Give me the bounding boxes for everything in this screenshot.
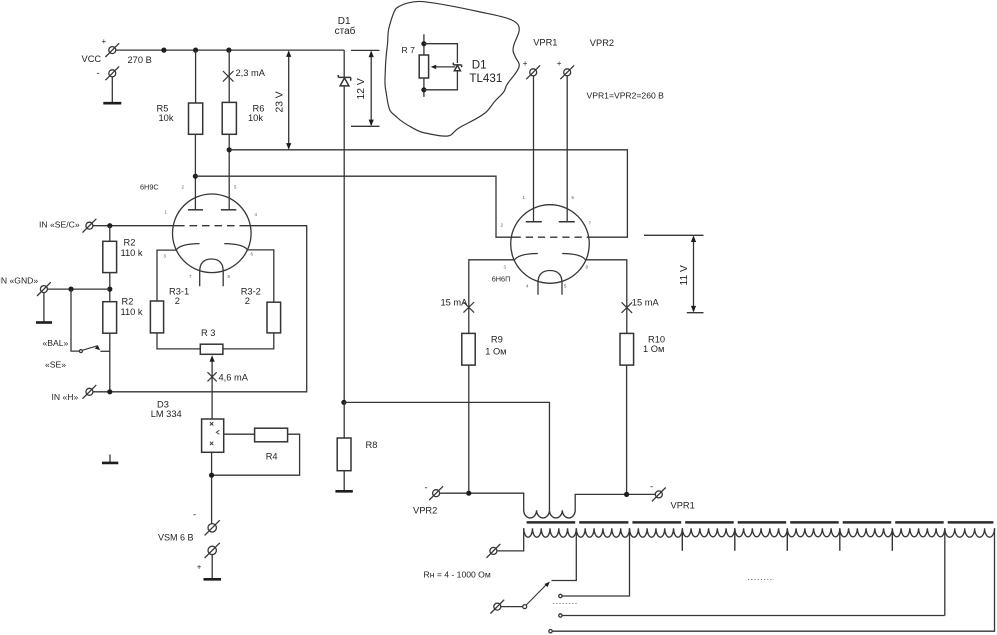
svg-text:VSM 6 В: VSM 6 В: [158, 533, 194, 543]
svg-text:R 3: R 3: [201, 328, 215, 338]
svg-text:4,6 mA: 4,6 mA: [219, 373, 249, 383]
svg-text:10k: 10k: [248, 113, 263, 123]
svg-text:IN «SE/C»: IN «SE/C»: [39, 220, 80, 230]
wire 6H9C left cathode lead: [157, 250, 176, 301]
svg-text:VPR1: VPR1: [533, 38, 557, 48]
svg-text:110 k: 110 k: [121, 307, 143, 317]
wire LM334 bottom lead: [211, 452, 213, 523]
svg-text:R2: R2: [122, 297, 134, 307]
6H9C left cathode: [176, 244, 199, 250]
node junction R7 bottom: [421, 87, 426, 92]
svg-text:-: -: [425, 483, 428, 494]
node junction zener line - B+ wire: [341, 400, 346, 405]
resistor R3-2: [267, 302, 281, 333]
wire VPR2 to 6H6P right plate: [566, 76, 568, 222]
tube 6H6P envelope: [511, 205, 590, 284]
resistor R5: [189, 103, 203, 134]
wire stub above R7: [423, 34, 425, 55]
wire IN GND to ground: [43, 293, 45, 323]
wire R6 to plate of 6H9C: [228, 134, 230, 210]
wire VPR2 to transformer primary left: [440, 493, 524, 510]
terminal IN GND: [37, 282, 51, 296]
dimension tick bottom 11V: [687, 312, 704, 314]
svg-text:D3: D3: [157, 400, 169, 410]
terminal secondary output bottom (switch): [490, 600, 504, 614]
svg-text:270 В: 270 В: [128, 55, 152, 65]
svg-text:110 k: 110 k: [121, 248, 143, 258]
LM334 internal marks: [210, 422, 213, 445]
wire VPR1 to 6H6P left plate: [533, 76, 535, 222]
ground for VCC: [103, 102, 121, 105]
svg-text:2: 2: [245, 296, 250, 306]
wire bracket R7 to TL431: [424, 44, 458, 90]
svg-text:IN «GND»: IN «GND»: [0, 276, 38, 286]
switch pivot contact: [523, 605, 527, 609]
svg-text:+: +: [523, 59, 528, 68]
switch BAL/SE moving contact circle: [79, 350, 82, 353]
wire top supply rail: [116, 49, 344, 51]
node junction rail-R6: [226, 48, 231, 53]
wire TL431 ref to R7 wiper with arrow: [434, 66, 456, 68]
wire 6H6P right cathode to R10: [585, 260, 626, 334]
svg-text:-: -: [97, 68, 100, 79]
node junction R7 top: [421, 41, 426, 46]
wire VPR1 to transformer primary right: [575, 494, 655, 510]
wire rail corner down to zener D1: [343, 50, 345, 402]
terminal VCC - (connector): [105, 66, 119, 80]
resistor R3-1: [150, 301, 163, 333]
6H9C heater: [200, 259, 224, 286]
current probe X 4.6mA: [208, 372, 217, 381]
wire R9 to VPR2 line: [468, 365, 470, 493]
wire contact3 to secondary right end: [552, 528, 994, 631]
svg-text:+: +: [557, 59, 562, 68]
terminal secondary output top: [487, 544, 501, 558]
svg-text:VCC: VCC: [82, 54, 102, 64]
terminal VPR2 +: [560, 65, 574, 79]
6H6P right cathode: [562, 254, 585, 260]
wire 6H9C right cathode lead: [248, 250, 274, 302]
node junction R10-VPR1 wire: [624, 492, 629, 497]
svg-text:10k: 10k: [159, 113, 174, 123]
switch BAL/SE lever: [83, 346, 98, 351]
wire BAL contact drop: [71, 289, 79, 351]
wire R4 around to LM334 bottom: [212, 434, 300, 475]
svg-text:R 7: R 7: [402, 45, 416, 55]
svg-text:23 V: 23 V: [274, 91, 285, 112]
node junction R5-grid wire: [193, 174, 198, 179]
wire R2 lower to IN H node: [109, 333, 111, 392]
current probe X 15mA right: [622, 302, 633, 313]
node junction R6-grid wire: [227, 147, 232, 152]
dimension arrow 12 V: [370, 52, 372, 126]
6H9C right plate: [221, 209, 236, 211]
potentiometer R7: [419, 55, 428, 78]
dimension tick top 11V: [644, 234, 704, 236]
svg-text:VPR2: VPR2: [413, 506, 437, 516]
current probe X 2.3mA: [223, 71, 234, 82]
shunt regulator D1 TL431 symbol: [453, 63, 461, 71]
node junction on rail: [161, 48, 166, 53]
6H9C left plate: [188, 209, 203, 211]
svg-text:VPR2: VPR2: [590, 38, 614, 48]
dots ellipsis mid secondary: [748, 579, 774, 581]
svg-text:6Н9С: 6Н9С: [140, 183, 159, 192]
wire secondary left end: [497, 528, 524, 551]
wire 6H9C left plate node to 6H6P grid (lower): [195, 176, 514, 237]
svg-text:R6: R6: [253, 104, 265, 114]
svg-text:1 Ом: 1 Ом: [485, 347, 506, 357]
wire R3 wiper with up arrow: [211, 360, 213, 419]
current source D3 LM334 box: [202, 419, 224, 452]
wire IN SE/C to 6H9C grid: [93, 225, 177, 227]
resistor R4: [255, 428, 288, 442]
terminal VPR1 bottom: [652, 488, 666, 502]
svg-text:6Н6П: 6Н6П: [492, 275, 511, 284]
zener diode D1 stab: [338, 75, 350, 86]
dimension tick top 12V: [351, 49, 380, 51]
cloud outline around R7 and TL431: [385, 1, 519, 136]
resistor R2 upper: [103, 241, 117, 272]
svg-text:VPR1: VPR1: [671, 501, 695, 511]
transformer core: [527, 521, 576, 524]
svg-text:1 Ом: 1 Ом: [643, 344, 664, 354]
terminal IN H: [83, 385, 97, 399]
svg-text:R2: R2: [124, 238, 136, 248]
wire to R8: [343, 402, 345, 438]
ground for IN GND: [36, 321, 52, 324]
svg-text:+: +: [197, 563, 202, 572]
wire switch stub to R2 line: [100, 350, 109, 352]
wire contact1 to first tap: [562, 528, 629, 596]
node junction IN H - R2 branch: [107, 389, 112, 394]
tap contact 1: [559, 594, 562, 597]
wire to R2 upper: [109, 226, 111, 242]
potentiometer R3: [200, 344, 223, 354]
node junction GND wire - BAL branch: [68, 287, 73, 292]
wire rail to R5: [195, 50, 197, 103]
tap contact 2: [559, 614, 562, 617]
svg-text:IN «H»: IN «H»: [52, 392, 79, 402]
ground for VSM: [204, 578, 222, 581]
transformer secondary winding: [524, 528, 995, 537]
wire rail to R6: [228, 50, 230, 102]
ground for R8: [335, 490, 352, 493]
ground symbol (floating, left): [109, 455, 111, 463]
svg-text:R3-2: R3-2: [241, 287, 261, 297]
resistor R6: [222, 102, 236, 134]
svg-text:«SE»: «SE»: [45, 360, 66, 370]
wire R10 to VPR1 line: [626, 365, 628, 494]
6H6P grid dashed line: [514, 236, 588, 238]
node junction R9-VPR2 wire: [466, 491, 471, 496]
svg-text:12 V: 12 V: [356, 78, 367, 99]
resistor R10: [620, 333, 634, 365]
terminal VSM +: [205, 543, 220, 558]
wire R8 to ground: [343, 471, 345, 492]
wire R5 to plate of 6H9C: [194, 134, 196, 210]
svg-text:D1: D1: [472, 59, 487, 72]
6H6P left plate: [526, 221, 542, 223]
svg-text:15 mA: 15 mA: [441, 298, 469, 308]
wire 6H6P left cathode to R9: [469, 260, 515, 334]
wire B+ node to transformer centre tap: [344, 402, 550, 510]
6H6P left cathode: [515, 254, 538, 260]
terminal VCC + (connector): [105, 43, 119, 57]
tap contact 3: [549, 630, 552, 633]
6H6P right plate: [559, 221, 575, 223]
wire LM334 R pin to R4: [224, 433, 255, 435]
svg-text:2: 2: [175, 296, 180, 306]
6H9C right cathode: [224, 244, 247, 250]
dimension tick bottom 12V: [351, 125, 380, 127]
wire to switch pivot: [501, 606, 523, 608]
terminal VSM -: [205, 520, 220, 535]
svg-text:VPR1=VPR2=260 В: VPR1=VPR2=260 В: [587, 91, 665, 101]
node junction rail-R5: [193, 48, 198, 53]
6H6P heater: [538, 271, 562, 295]
6H9C grid dashed line: [177, 225, 247, 227]
current probe X 15mA left: [464, 302, 475, 313]
wire contact2 to far tap: [562, 528, 945, 615]
resistor R2 lower: [103, 302, 117, 334]
svg-text:R3-1: R3-1: [169, 287, 189, 297]
dimension arrow 23 V: [288, 52, 290, 149]
dimension arrow 11 V: [693, 237, 695, 312]
wire VSM to ground: [211, 555, 213, 580]
svg-text:-: -: [650, 482, 653, 493]
node junction IN SE/C - R2: [107, 223, 112, 228]
svg-text:-: -: [193, 510, 196, 521]
wire R3-2 to R3: [223, 333, 274, 349]
wire stub below R7: [423, 78, 425, 97]
resistor R8: [337, 438, 351, 471]
svg-text:стаб: стаб: [335, 25, 356, 37]
svg-text:11 V: 11 V: [679, 265, 690, 286]
svg-text:R4: R4: [266, 452, 278, 462]
svg-text:2,3 mA: 2,3 mA: [236, 68, 266, 78]
wire R3-1 to R3: [157, 333, 200, 349]
svg-text:15 mA: 15 mA: [632, 298, 660, 308]
svg-text:«BAL»: «BAL»: [43, 338, 69, 348]
tube 6H9C envelope: [173, 194, 252, 273]
terminal VPR2 bottom: [429, 486, 443, 500]
svg-text:+: +: [102, 37, 107, 46]
wire between R2s: [109, 273, 111, 302]
transformer T1 primary winding: [524, 510, 576, 518]
wire IN H to 6H9C right grid: [93, 226, 307, 392]
wire VCC- to ground: [111, 77, 113, 103]
terminal VPR1 +: [526, 65, 540, 79]
svg-text:TL431: TL431: [469, 72, 502, 85]
dots ellipsis near switch: [553, 603, 577, 605]
node junction LM334-R4: [209, 473, 214, 478]
svg-text:R8: R8: [366, 440, 378, 450]
node junction R2-R2-GND: [107, 287, 112, 292]
svg-text:R5: R5: [157, 104, 169, 114]
svg-text:Rн = 4 - 1000 Ом: Rн = 4 - 1000 Ом: [424, 570, 491, 580]
resistor R9: [462, 333, 475, 365]
wire secondary tap to switch: [552, 528, 577, 580]
terminal IN SE/C: [83, 219, 97, 233]
svg-text:R9: R9: [491, 335, 503, 345]
switch BAL/SE lever arrowhead: [95, 345, 100, 350]
wire IN GND to R2 junction: [47, 288, 109, 290]
svg-text:LM 334: LM 334: [151, 409, 182, 419]
switch lever with arrowhead: [526, 585, 546, 606]
wire 6H9C right plate node to 6H6P grid (upper): [229, 150, 627, 237]
secondary tap stubs: [681, 528, 683, 551]
